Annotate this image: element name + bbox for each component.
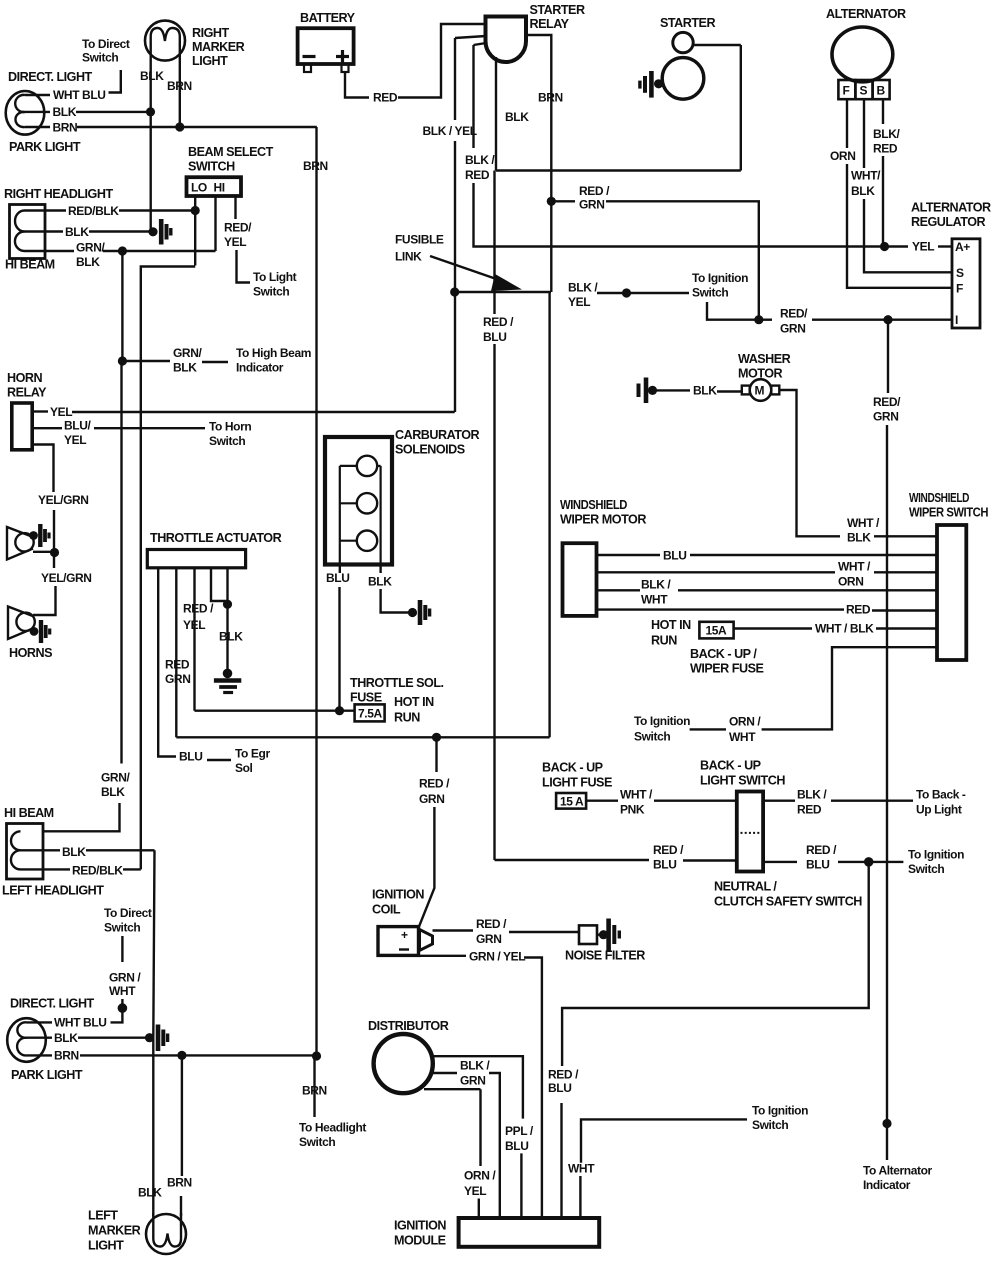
wire GRN/YEL coil to ignition module [419, 955, 467, 957]
svg-text:RED /: RED / [483, 315, 514, 329]
svg-text:Indicator: Indicator [863, 1178, 911, 1192]
svg-text:To Ignition: To Ignition [692, 271, 748, 285]
svg-text:BLK: BLK [693, 384, 717, 398]
svg-text:HI BEAM: HI BEAM [4, 806, 54, 820]
svg-text:RED: RED [465, 168, 490, 182]
svg-text:WHT /: WHT / [838, 560, 871, 574]
svg-text:DIRECT. LIGHT: DIRECT. LIGHT [10, 997, 95, 1011]
wire RED/YEL throttle pin3 to fuse [193, 568, 195, 711]
svg-text:BLU: BLU [548, 1081, 571, 1095]
svg-text:WHT BLU: WHT BLU [54, 1016, 107, 1030]
svg-text:WHT: WHT [729, 730, 756, 744]
svg-text:BLU: BLU [653, 858, 676, 872]
svg-text:PPL /: PPL / [505, 1124, 534, 1138]
svg-text:To Direct: To Direct [104, 906, 152, 920]
wire BLK from direct light to marker bus [25, 111, 50, 113]
wire WHT/ORN wiper [597, 571, 835, 573]
svg-text:BRN: BRN [167, 1176, 192, 1190]
svg-text:SWITCH: SWITCH [188, 160, 235, 174]
wire WHT/BLK alternator S pin [863, 99, 865, 168]
svg-text:RED: RED [873, 142, 898, 156]
svg-text:LEFT HEADLIGHT: LEFT HEADLIGHT [2, 884, 104, 898]
svg-text:WHT: WHT [568, 1162, 595, 1176]
svg-text:BLK: BLK [53, 105, 77, 119]
svg-text:YEL: YEL [50, 405, 72, 419]
svg-text:YEL: YEL [464, 1184, 486, 1198]
svg-text:15 A: 15 A [560, 795, 584, 809]
wire throttle pin4 jog [211, 568, 228, 601]
wire BLK/RED to back-up light [763, 800, 795, 802]
svg-text:BLK / YEL: BLK / YEL [423, 124, 477, 138]
wire BLU wiper [597, 554, 660, 556]
svg-text:PARK LIGHT: PARK LIGHT [11, 1068, 83, 1082]
junction dot BRN / marker BRN [175, 122, 184, 131]
svg-text:WHT: WHT [109, 984, 136, 998]
svg-text:BRN: BRN [54, 1049, 79, 1063]
svg-text:RED/: RED/ [224, 221, 252, 235]
svg-text:BLK: BLK [54, 1031, 78, 1045]
svg-text:BLU: BLU [179, 750, 202, 764]
svg-text:FUSIBLE: FUSIBLE [395, 233, 444, 247]
svg-text:IGNITION: IGNITION [372, 888, 424, 902]
ground at horn 1 [29, 524, 49, 547]
ground at carb solenoids [408, 600, 430, 625]
svg-text:NEUTRAL /: NEUTRAL / [714, 880, 777, 894]
wire BLK left headlight to ground bus [21, 849, 61, 851]
svg-text:HI BEAM: HI BEAM [5, 258, 55, 272]
svg-text:YEL/GRN: YEL/GRN [38, 493, 89, 507]
svg-text:LO: LO [191, 181, 207, 195]
wire RED battery to starter relay [345, 72, 369, 98]
svg-text:WHT BLU: WHT BLU [53, 88, 106, 102]
svg-text:LIGHT SWITCH: LIGHT SWITCH [700, 774, 785, 788]
wire RED/GRN coil to noise filter [433, 929, 474, 931]
ground at washer motor [639, 378, 658, 404]
svg-text:S: S [860, 84, 868, 98]
svg-text:YEL: YEL [912, 240, 934, 254]
wire throttle sol fuse line [195, 710, 355, 712]
svg-text:Sol: Sol [235, 761, 253, 775]
wire BLK/RED alternator B pin [882, 99, 884, 124]
svg-text:ORN: ORN [830, 149, 855, 163]
svg-text:GRN: GRN [476, 932, 501, 946]
svg-text:IGNITION: IGNITION [394, 1219, 446, 1233]
svg-text:SOLENOIDS: SOLENOIDS [395, 443, 465, 457]
svg-text:BLK /: BLK / [641, 578, 671, 592]
junction dot BLK / marker bus [146, 107, 155, 116]
wire BLK right headlight to ground [25, 230, 64, 232]
wire RED/GRN net y=737 [176, 736, 549, 738]
wire RED/GRN riser from starter relay BRN [547, 197, 556, 206]
wire BRN from relay right [526, 35, 551, 201]
svg-text:RED /: RED / [548, 1068, 579, 1082]
svg-text:To Ignition: To Ignition [752, 1104, 808, 1118]
wire marker ground bus down to chassis ground [149, 112, 151, 232]
svg-text:RED /: RED / [806, 843, 837, 857]
svg-text:RED: RED [846, 603, 871, 617]
svg-text:BLK: BLK [140, 69, 164, 83]
svg-text:BACK - UP /: BACK - UP / [690, 647, 757, 661]
wire beam select LO pin to left headlight RED/BLK bus [194, 197, 196, 266]
svg-text:GRN: GRN [873, 410, 898, 424]
svg-text:S: S [956, 266, 964, 280]
right marker light RIGHT MARKER LIGHT [145, 21, 185, 62]
svg-text:To Light: To Light [253, 270, 297, 284]
svg-text:WHT/: WHT/ [851, 169, 881, 183]
wire beam select middle pin from headlight GRN/BLK [214, 197, 216, 252]
wire washer motor to wiper switch WHT/BLK [779, 390, 840, 536]
svg-text:BLU: BLU [806, 858, 829, 872]
svg-text:WIPER MOTOR: WIPER MOTOR [560, 513, 646, 527]
wire WHT to ignition switch [579, 1176, 581, 1218]
wire WHT/PNK fuse to back-up light switch [586, 800, 618, 802]
svg-text:WINDSHIELD: WINDSHIELD [909, 491, 969, 505]
wire RED/BLU bus from starter relay junction down [493, 171, 495, 315]
wire RED/BLU to neutral safety switch [495, 859, 650, 861]
svg-text:Switch: Switch [692, 286, 728, 300]
svg-text:BRN: BRN [538, 91, 563, 105]
svg-text:LINK: LINK [395, 250, 422, 264]
svg-text:YEL: YEL [64, 433, 86, 447]
svg-text:GRN: GRN [579, 198, 604, 212]
svg-text:BEAM SELECT: BEAM SELECT [188, 145, 274, 159]
svg-text:BLU: BLU [663, 549, 686, 563]
svg-text:BLK /: BLK / [460, 1059, 490, 1073]
svg-text:LIGHT FUSE: LIGHT FUSE [542, 776, 612, 790]
wire ORN/YEL distributor [424, 1088, 481, 1090]
svg-text:RED/BLK: RED/BLK [72, 864, 123, 878]
svg-text:BLU: BLU [505, 1139, 528, 1153]
svg-text:GRN: GRN [780, 322, 805, 336]
svg-text:NOISE FILTER: NOISE FILTER [565, 949, 645, 963]
svg-text:BLK: BLK [65, 225, 89, 239]
svg-text:RED: RED [373, 91, 398, 105]
svg-text:RED/: RED/ [873, 395, 901, 409]
svg-text:HOT IN: HOT IN [651, 618, 691, 632]
svg-text:ALTERNATOR: ALTERNATOR [911, 201, 991, 215]
svg-text:BLK: BLK [505, 110, 529, 124]
wire BRN from park light to BRN bus [25, 126, 50, 128]
wire GRN/BLK bus to left headlight hi beam [43, 803, 120, 831]
junction dot B pin on YEL line [880, 242, 889, 251]
svg-text:LIGHT: LIGHT [88, 1239, 124, 1253]
svg-text:BACK - UP: BACK - UP [542, 761, 603, 775]
svg-text:B: B [877, 84, 886, 98]
ground at noise filter [597, 919, 619, 951]
BRN bus lower end to headlight switch [312, 1051, 321, 1060]
svg-text:PARK LIGHT: PARK LIGHT [9, 140, 81, 154]
wire BLK/YEL bus from relay [455, 36, 486, 38]
svg-text:Up Light: Up Light [916, 803, 962, 817]
svg-text:F: F [956, 282, 963, 296]
svg-text:Switch: Switch [634, 730, 670, 744]
svg-text:BLK /: BLK / [797, 788, 827, 802]
svg-text:RED /: RED / [579, 184, 610, 198]
svg-text:GRN / YEL: GRN / YEL [469, 950, 525, 964]
svg-text:GRN/: GRN/ [76, 241, 105, 255]
svg-text:HOT IN: HOT IN [394, 695, 434, 709]
svg-text:FUSE: FUSE [350, 691, 382, 705]
svg-text:Switch: Switch [253, 285, 289, 299]
svg-text:GRN /: GRN / [109, 971, 141, 985]
svg-text:7.5A: 7.5A [358, 707, 382, 721]
wire BLK down to left marker light [152, 1038, 154, 1216]
svg-text:BLK: BLK [62, 845, 86, 859]
wire RED/BLU down to ignition module [562, 862, 869, 1066]
svg-text:RELAY: RELAY [7, 386, 47, 400]
svg-text:BLK /: BLK / [465, 153, 495, 167]
svg-text:To Alternator: To Alternator [863, 1164, 933, 1178]
svg-text:BLK/: BLK/ [873, 127, 900, 141]
svg-text:I: I [955, 313, 958, 327]
svg-text:DIRECT. LIGHT: DIRECT. LIGHT [8, 70, 93, 84]
wire BLU/YEL to horn switch [32, 427, 62, 429]
svg-text:THROTTLE SOL.: THROTTLE SOL. [350, 676, 444, 690]
wire ORN/WHT riser to wiper switch [762, 647, 937, 729]
svg-text:PNK: PNK [620, 803, 645, 817]
svg-text:LEFT: LEFT [88, 1209, 118, 1223]
svg-text:To Horn: To Horn [209, 420, 251, 434]
svg-text:To High Beam: To High Beam [236, 346, 311, 360]
wire WHT BLU from direct light [25, 94, 50, 96]
svg-text:COIL: COIL [372, 903, 401, 917]
wire BLK ground bus down left side [153, 850, 154, 1038]
svg-text:Indicator: Indicator [236, 361, 284, 375]
wire WHT BLU left direct light [27, 1021, 53, 1023]
svg-text:BLU/: BLU/ [64, 419, 91, 433]
svg-text:Switch: Switch [908, 862, 944, 876]
wire RED/GRN drop to ignition coil [435, 737, 437, 772]
svg-text:WHT: WHT [641, 593, 668, 607]
svg-text:Switch: Switch [752, 1118, 788, 1132]
svg-text:BLK: BLK [847, 531, 871, 545]
svg-text:RUN: RUN [394, 711, 420, 725]
svg-text:ORN /: ORN / [729, 715, 761, 729]
svg-text:RED /: RED / [183, 602, 214, 616]
svg-text:WIPER FUSE: WIPER FUSE [690, 662, 763, 676]
svg-text:WINDSHIELD: WINDSHIELD [560, 498, 627, 512]
svg-text:RELAY: RELAY [530, 17, 570, 31]
svg-text:BLK: BLK [101, 785, 125, 799]
wire ORN alternator F pin [846, 99, 848, 148]
svg-text:MARKER: MARKER [88, 1224, 141, 1238]
svg-text:HORN: HORN [7, 371, 42, 385]
svg-text:MODULE: MODULE [394, 1234, 446, 1248]
svg-text:GRN: GRN [165, 672, 190, 686]
svg-text:RED /: RED / [653, 843, 684, 857]
svg-text:DISTRIBUTOR: DISTRIBUTOR [368, 1019, 449, 1033]
wire RED GRN throttle pin2 [175, 568, 177, 737]
wire BLU throttle pin1 to egr sol [158, 568, 176, 757]
wire BRN down to left marker light [181, 1055, 183, 1176]
svg-text:LIGHT: LIGHT [192, 54, 228, 68]
svg-text:RED: RED [165, 658, 190, 672]
wire RED/BLU from back-up switch right [763, 861, 797, 863]
svg-text:YEL: YEL [224, 235, 246, 249]
svg-text:Switch: Switch [104, 921, 140, 935]
wire BLK/WHT wiper [597, 589, 640, 591]
wire RED/BLK right headlight to beam select LO [25, 209, 67, 211]
svg-text:THROTTLE ACTUATOR: THROTTLE ACTUATOR [150, 531, 282, 545]
svg-text:ALTERNATOR: ALTERNATOR [826, 7, 906, 21]
svg-text:BLK: BLK [368, 575, 392, 589]
svg-text:HI: HI [214, 181, 225, 195]
svg-text:RED: RED [797, 803, 822, 817]
svg-text:RIGHT HEADLIGHT: RIGHT HEADLIGHT [4, 187, 113, 201]
svg-text:BLU: BLU [326, 571, 349, 585]
svg-text:WASHER: WASHER [738, 352, 791, 366]
svg-text:BRN: BRN [302, 1084, 327, 1098]
svg-text:Switch: Switch [209, 434, 245, 448]
horn 2 [8, 607, 35, 640]
ground at left direct light [145, 1025, 168, 1052]
svg-text:To Ignition: To Ignition [908, 848, 964, 862]
svg-text:YEL: YEL [183, 618, 205, 632]
svg-text:To Ignition: To Ignition [634, 714, 690, 728]
wire BLK left direct light to ground [27, 1036, 53, 1038]
starter relay STARTER RELAY [486, 17, 527, 63]
svg-text:YEL: YEL [568, 295, 590, 309]
svg-text:Switch: Switch [82, 51, 118, 65]
svg-text:WIPER SWITCH: WIPER SWITCH [909, 506, 988, 520]
svg-text:Switch: Switch [299, 1135, 335, 1149]
svg-text:To Headlight: To Headlight [299, 1121, 366, 1135]
stub To High Beam Indicator [122, 360, 170, 362]
svg-text:F: F [843, 84, 850, 98]
wire YEL horn relay to BLK/YEL bus [32, 410, 48, 412]
svg-text:BRN: BRN [53, 121, 78, 135]
wire YEL/GRN horn relay down to horns [32, 445, 53, 493]
wire RED/GRN right-side bus to alternator indicator [887, 320, 889, 393]
wire RED wiper [597, 608, 844, 610]
svg-text:WHT /: WHT / [847, 516, 880, 530]
svg-text:RUN: RUN [651, 634, 677, 648]
svg-text:CARBURATOR: CARBURATOR [395, 428, 479, 442]
svg-text:WHT / BLK: WHT / BLK [815, 622, 874, 636]
svg-text:RIGHT: RIGHT [192, 26, 229, 40]
svg-text:ORN /: ORN / [464, 1169, 496, 1183]
svg-text:REGULATOR: REGULATOR [911, 215, 985, 229]
svg-text:BLK: BLK [76, 255, 100, 269]
svg-text:RED/BLK: RED/BLK [68, 204, 119, 218]
svg-text:BLK: BLK [851, 184, 875, 198]
svg-text:GRN: GRN [419, 792, 444, 806]
svg-text:15A: 15A [706, 624, 728, 638]
svg-text:RED/: RED/ [780, 307, 808, 321]
svg-text:HORNS: HORNS [9, 646, 52, 660]
svg-text:GRN/: GRN/ [173, 346, 202, 360]
svg-text:RED /: RED / [476, 917, 507, 931]
svg-text:A+: A+ [955, 240, 970, 254]
svg-text:CLUTCH SAFETY SWITCH: CLUTCH SAFETY SWITCH [714, 895, 862, 909]
svg-text:GRN: GRN [460, 1074, 485, 1088]
wire BLK/YEL bus to horn relay YEL line [454, 292, 456, 412]
svg-text:To Direct: To Direct [82, 37, 130, 51]
noise filter NOISE FILTER [579, 925, 597, 944]
wire distributor top to PPL/BLU [432, 1056, 523, 1118]
wire BLK throttle pin5 to earth ground [226, 568, 228, 673]
left marker light LEFT MARKER LIGHT [146, 1213, 186, 1254]
wire BLK washer motor to ground [653, 389, 691, 391]
svg-text:BLK: BLK [138, 1186, 162, 1200]
svg-text:BLK /: BLK / [568, 281, 598, 295]
ground at horn 2 [30, 620, 50, 643]
svg-text:STARTER: STARTER [660, 16, 715, 30]
svg-text:+: + [401, 928, 408, 942]
svg-text:BRN: BRN [303, 159, 328, 173]
wire BLU carb solenoids to fuse junction [339, 565, 341, 574]
svg-text:BLK: BLK [173, 361, 197, 375]
svg-text:BACK - UP: BACK - UP [700, 759, 761, 773]
svg-text:M: M [755, 384, 765, 398]
wire BLK carb solenoids to ground [379, 565, 381, 574]
svg-text:BLU: BLU [483, 330, 506, 344]
svg-text:RED /: RED / [419, 777, 450, 791]
wire BLK from relay bottom to starter [495, 57, 497, 171]
horn 1 [7, 527, 55, 560]
svg-text:BATTERY: BATTERY [300, 11, 356, 25]
wire WHT/BLK fuse to wiper switch [734, 627, 812, 629]
svg-text:STARTER: STARTER [530, 3, 585, 17]
wire GRN/BLK bus down left side [121, 251, 123, 361]
wire RED/GRN to regulator I pin [754, 315, 763, 324]
wire RED/BLK left headlight from beam select bus [21, 868, 71, 870]
wire BRN left park light [27, 1054, 53, 1056]
svg-text:WHT /: WHT / [620, 788, 653, 802]
wire GRN/BLK right headlight to beam select [25, 250, 75, 252]
wire BLK/RED bus from relay [474, 43, 487, 45]
alternator terminals F S B [838, 80, 889, 99]
earth ground at throttle actuator [214, 669, 241, 693]
svg-text:GRN/: GRN/ [101, 771, 130, 785]
svg-text:MARKER: MARKER [192, 40, 245, 54]
BRN bus vertical [315, 127, 317, 1056]
wire BLK/YEL fusible link line [450, 287, 459, 296]
svg-text:ORN: ORN [838, 575, 863, 589]
svg-text:BLK: BLK [219, 630, 243, 644]
ground at right headlight [148, 219, 170, 245]
ground at starter [640, 71, 663, 98]
svg-text:To Egr: To Egr [235, 747, 270, 761]
wire RED/YEL beam select HI pin [234, 197, 236, 220]
direction light (right front) DIRECT. LIGHT [6, 91, 45, 135]
svg-text:To Back -: To Back - [916, 788, 966, 802]
svg-text:YEL/GRN: YEL/GRN [41, 571, 92, 585]
